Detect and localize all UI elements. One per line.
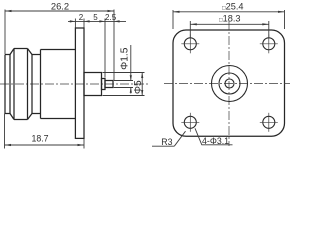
dim 18.7 extensions xyxy=(4,114,6,149)
svg-text:□25.4: □25.4 xyxy=(222,1,244,11)
nut rear face xyxy=(31,55,33,114)
dim dia1.5 line xyxy=(130,45,132,81)
nut chamfer bottom-left xyxy=(10,114,14,120)
svg-text:Φ1.5: Φ1.5 xyxy=(120,47,131,70)
horizontal centerline xyxy=(164,83,290,85)
dim 18.7 line xyxy=(5,144,85,146)
mounting hole bottom-left xyxy=(184,116,196,128)
flange square xyxy=(173,30,285,136)
nut hex line left xyxy=(13,49,15,120)
step top xyxy=(5,54,10,56)
body top xyxy=(41,49,76,51)
body bottom xyxy=(41,118,76,120)
mounting hole bottom-right xyxy=(263,116,275,128)
contact pin xyxy=(105,81,113,88)
step face xyxy=(9,55,11,114)
dim 26.2 arrows xyxy=(5,10,12,12)
dim 18.7 arrows xyxy=(5,144,12,146)
insulator bushing xyxy=(84,73,102,96)
dim 26.2 extension right / pin tip xyxy=(113,10,115,81)
nut chamfer top-left xyxy=(10,49,14,55)
svg-text:□18.3: □18.3 xyxy=(219,13,241,23)
dim dia1.5 arrows xyxy=(130,75,132,80)
dim dia5 arrows xyxy=(141,73,143,79)
dim 26.2 line xyxy=(5,10,114,12)
groove bottom xyxy=(32,113,41,115)
svg-text:2: 2 xyxy=(79,13,84,22)
body front face xyxy=(40,50,42,119)
svg-text:R3: R3 xyxy=(161,137,172,147)
svg-text:Φ5: Φ5 xyxy=(133,80,144,94)
dim 2/5/2.5 line xyxy=(68,20,126,22)
R3 leader xyxy=(152,145,174,147)
nut hex line right xyxy=(27,49,29,120)
dim dia5 line xyxy=(141,73,143,96)
left face xyxy=(4,55,6,114)
svg-text:18.7: 18.7 xyxy=(31,134,48,144)
groove top xyxy=(32,54,41,56)
flange (side) xyxy=(75,28,84,138)
dim 5/2.5 extension xyxy=(104,19,106,78)
nut chamfer bottom-right xyxy=(28,114,33,120)
mounting hole top-left xyxy=(184,38,196,50)
center circles xyxy=(212,66,248,102)
svg-text:26.2: 26.2 xyxy=(51,0,69,11)
pin collar xyxy=(102,79,106,90)
dia extension lines xyxy=(103,72,145,74)
dim 2/5/2.5 arrows xyxy=(70,20,76,22)
mounting hole top-right xyxy=(263,38,275,50)
nut top flat xyxy=(14,48,28,50)
dim 26.2 extension left xyxy=(4,10,6,55)
4-dia3.1 leader xyxy=(195,128,202,145)
svg-text:4-Φ3.1: 4-Φ3.1 xyxy=(202,136,229,146)
dim 2 extension lines xyxy=(74,19,76,28)
centerline xyxy=(0,83,148,85)
svg-text:2.5: 2.5 xyxy=(105,13,117,22)
nut chamfer top-right xyxy=(28,49,33,55)
dim 25.4 xyxy=(172,10,174,29)
nut bottom flat xyxy=(14,119,28,121)
step bottom xyxy=(5,113,10,115)
dim 18.3 xyxy=(189,21,191,38)
svg-text:5: 5 xyxy=(93,13,98,22)
connector body outline xyxy=(5,28,113,138)
vertical centerline xyxy=(228,21,230,146)
